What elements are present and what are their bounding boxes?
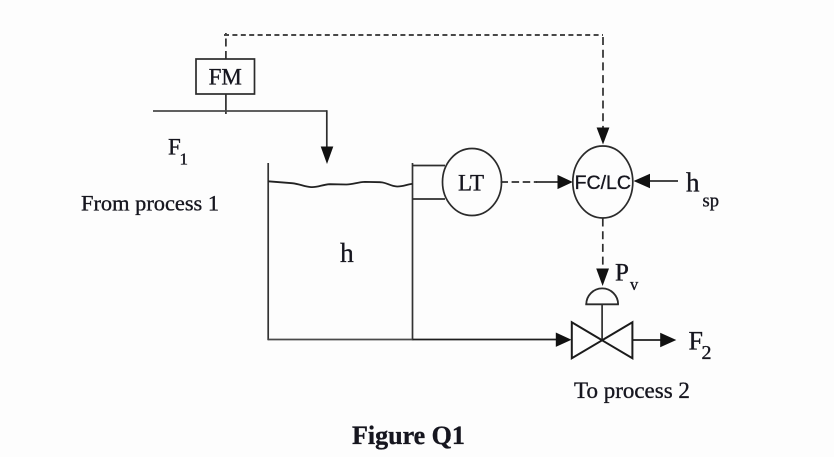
svg-text:P: P [615,260,629,287]
controller FC/LC [573,146,633,218]
wire: inlet drop into tank [326,110,328,148]
arrowhead into FC/LC from top [597,128,610,145]
svg-text:From process 1: From process 1 [81,191,219,216]
svg-text:To process 2: To process 2 [574,378,690,403]
label Pv (valve position) [615,260,639,295]
svg-text:h: h [340,237,354,268]
svg-text:sp: sp [703,192,719,212]
wire: dashed signal FM to controller, vertical above FM [225,33,227,59]
arrowhead outlet F2 [660,333,676,348]
control valve body (bowtie) [572,322,633,358]
arrowhead into valve inlet [556,333,572,347]
svg-text:FC/LC: FC/LC [575,172,631,194]
tank bottom [268,339,412,341]
water surface wavy line [268,181,412,187]
tank left wall [267,163,269,340]
svg-text:1: 1 [180,150,189,169]
level transmitter LT [443,149,502,216]
label From process 1 [81,191,219,216]
wire: dashed signal vertical down to controller [602,37,604,128]
svg-text:FM: FM [209,65,242,90]
svg-text:v: v [630,275,639,294]
wire: actuator stem to valve [601,304,603,339]
label To process 2 [574,378,690,403]
arrowhead into valve actuator [596,269,609,287]
label h sp (setpoint) [686,168,719,212]
tank right wall [412,163,414,340]
label h (tank level) [340,237,354,268]
arrowhead into FC/LC from setpoint [634,174,650,189]
wire: inlet pipe horizontal [153,110,327,112]
wire: LT tap upper connector [413,165,446,167]
wire: setpoint line from right [650,180,678,182]
svg-text:2: 2 [702,342,712,364]
wire: LT tap lower connector [413,198,446,200]
arrowhead into FC/LC from LT [558,175,573,189]
wire: tank outlet to valve [413,339,559,341]
svg-text:h: h [686,168,700,198]
wire: dashed signal horizontal top run [224,34,603,36]
valve actuator dome [585,288,619,304]
flow meter FM box [196,59,255,94]
svg-text:LT: LT [458,171,484,196]
caption Figure Q1 [352,421,465,450]
label F2 [689,327,712,365]
wire: FM stem to inlet pipe [225,94,227,114]
wire: dashed FC/LC to valve actuator [602,219,604,269]
arrowhead inlet into tank [321,147,334,165]
wire: valve outlet line [632,339,663,341]
svg-text:Figure Q1: Figure Q1 [352,421,465,450]
label F1 [168,135,188,169]
wire: dashed LT to FC/LC [501,181,561,183]
